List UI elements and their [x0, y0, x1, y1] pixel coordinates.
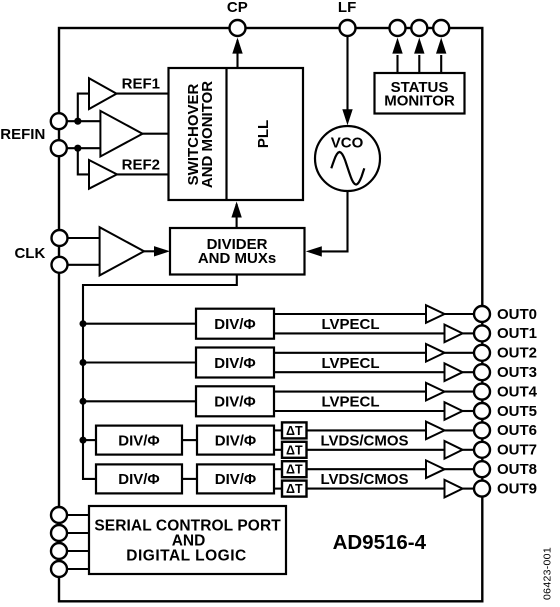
svg-text:LVPECL: LVPECL [321, 355, 379, 372]
svg-text:LVPECL: LVPECL [321, 394, 379, 411]
svg-text:DIV/Φ: DIV/Φ [215, 471, 256, 488]
svg-text:OUT7: OUT7 [497, 442, 537, 459]
svg-text:LVPECL: LVPECL [321, 316, 379, 333]
svg-text:CLK: CLK [14, 245, 45, 262]
svg-text:DIV/Φ: DIV/Φ [118, 471, 159, 488]
svg-text:OUT6: OUT6 [497, 422, 537, 439]
svg-text:LVDS/CMOS: LVDS/CMOS [320, 432, 408, 449]
svg-text:ΔT: ΔT [286, 463, 303, 477]
svg-text:REFIN: REFIN [0, 126, 45, 143]
svg-text:DIGITAL LOGIC: DIGITAL LOGIC [126, 548, 246, 565]
svg-text:OUT1: OUT1 [497, 325, 537, 342]
svg-text:LF: LF [338, 0, 356, 16]
svg-text:LVDS/CMOS: LVDS/CMOS [320, 471, 408, 488]
svg-text:MONITOR: MONITOR [384, 92, 455, 109]
svg-text:OUT4: OUT4 [497, 383, 538, 400]
svg-text:CP: CP [227, 0, 248, 16]
svg-text:OUT2: OUT2 [497, 345, 537, 362]
svg-text:OUT3: OUT3 [497, 364, 537, 381]
svg-text:DIV/Φ: DIV/Φ [214, 316, 255, 333]
svg-text:OUT9: OUT9 [497, 480, 537, 497]
svg-text:DIV/Φ: DIV/Φ [214, 355, 255, 372]
svg-text:AND MUXs: AND MUXs [198, 250, 276, 267]
svg-text:ΔT: ΔT [286, 482, 303, 496]
svg-text:OUT5: OUT5 [497, 403, 537, 420]
svg-text:VCO: VCO [331, 135, 364, 152]
svg-text:AND MONITOR: AND MONITOR [199, 81, 216, 188]
svg-text:OUT0: OUT0 [497, 306, 537, 323]
svg-text:DIV/Φ: DIV/Φ [215, 432, 256, 449]
svg-text:DIV/Φ: DIV/Φ [118, 432, 159, 449]
svg-text:06423-001: 06423-001 [542, 547, 554, 600]
svg-text:REF1: REF1 [122, 76, 160, 93]
svg-text:REF2: REF2 [122, 157, 160, 174]
svg-text:ΔT: ΔT [286, 443, 303, 457]
svg-text:PLL: PLL [255, 120, 272, 148]
svg-text:AD9516-4: AD9516-4 [333, 531, 427, 554]
svg-text:DIV/Φ: DIV/Φ [214, 394, 255, 411]
svg-text:OUT8: OUT8 [497, 461, 537, 478]
svg-text:ΔT: ΔT [286, 424, 303, 438]
